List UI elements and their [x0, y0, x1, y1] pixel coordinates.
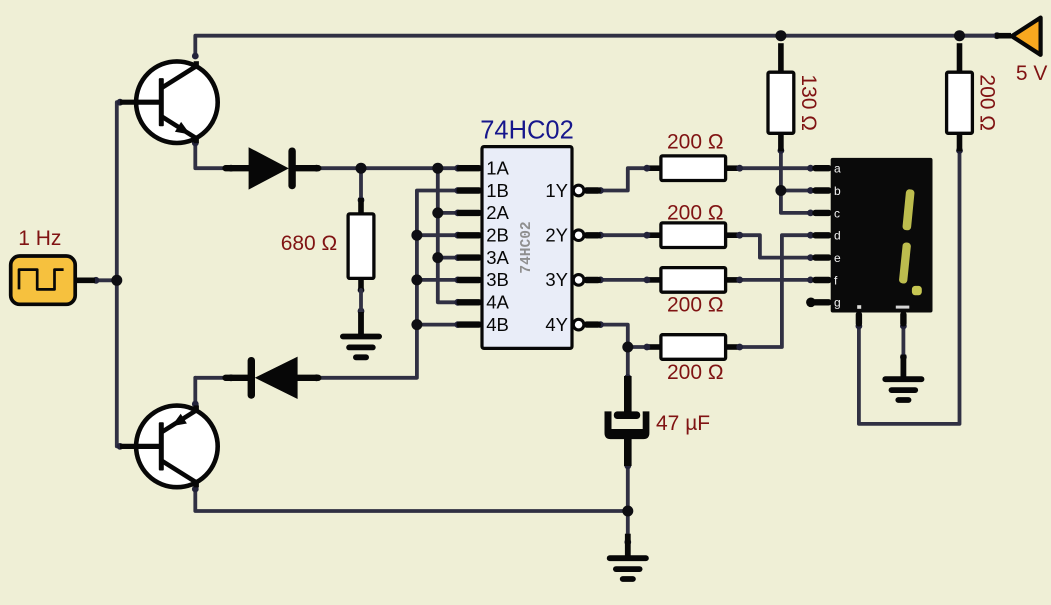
- svg-text:200 Ω: 200 Ω: [976, 74, 999, 131]
- svg-text:200 Ω: 200 Ω: [667, 201, 724, 224]
- svg-text:1B: 1B: [486, 180, 509, 201]
- svg-text:3A: 3A: [486, 247, 509, 268]
- svg-text:b: b: [834, 184, 841, 198]
- svg-text:74HC02: 74HC02: [480, 117, 574, 145]
- svg-text:1 Hz: 1 Hz: [18, 227, 61, 250]
- svg-text:130 Ω: 130 Ω: [797, 74, 820, 131]
- svg-text:d: d: [834, 229, 841, 243]
- svg-text:c: c: [834, 206, 840, 220]
- svg-text:200 Ω: 200 Ω: [667, 361, 724, 384]
- svg-text:2Y: 2Y: [545, 225, 568, 246]
- svg-text:4B: 4B: [486, 314, 509, 335]
- svg-text:200 Ω: 200 Ω: [667, 131, 724, 154]
- svg-text:g: g: [834, 296, 841, 310]
- svg-text:200 Ω: 200 Ω: [667, 293, 724, 316]
- svg-text:4Y: 4Y: [545, 314, 568, 335]
- svg-text:a: a: [834, 162, 841, 176]
- svg-text:e: e: [834, 251, 841, 265]
- svg-text:3Y: 3Y: [545, 269, 568, 290]
- svg-text:1A: 1A: [486, 158, 509, 179]
- svg-text:47 µF: 47 µF: [656, 412, 710, 435]
- svg-text:3B: 3B: [486, 269, 509, 290]
- svg-text:5 V: 5 V: [1016, 62, 1048, 85]
- svg-text:680 Ω: 680 Ω: [281, 232, 338, 255]
- svg-text:74HC02: 74HC02: [519, 221, 535, 273]
- svg-text:1Y: 1Y: [545, 180, 568, 201]
- svg-text:4A: 4A: [486, 292, 509, 313]
- svg-text:2A: 2A: [486, 202, 509, 223]
- svg-text:2B: 2B: [486, 225, 509, 246]
